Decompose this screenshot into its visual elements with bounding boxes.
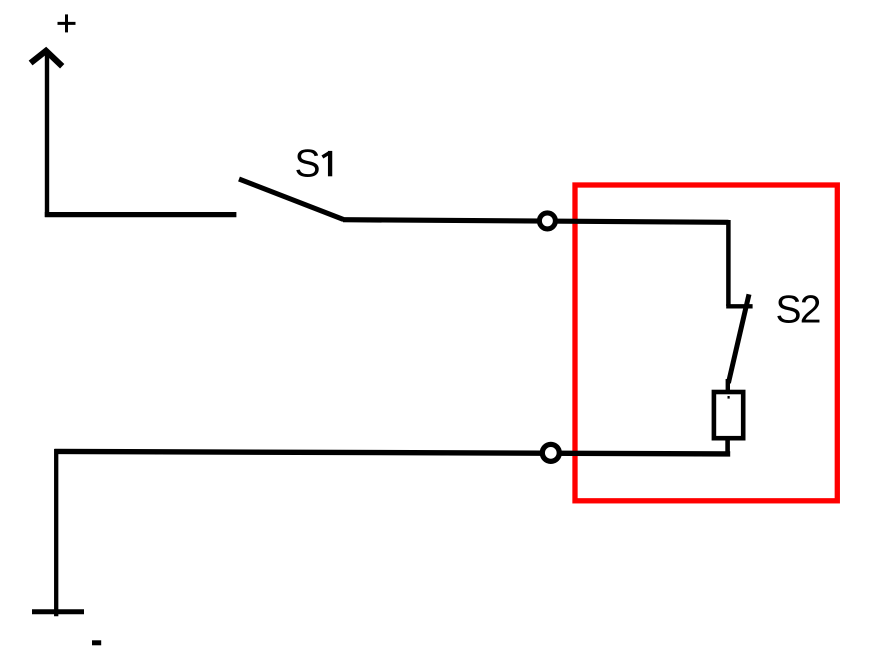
load (resistor) rectangle bbox=[714, 392, 743, 438]
bottom terminal node bbox=[542, 444, 559, 461]
wire: load bottom lead bbox=[725, 439, 730, 456]
switch S1 blade bbox=[239, 179, 344, 220]
svg-text:S: S bbox=[295, 143, 321, 186]
plus label bbox=[58, 14, 76, 32]
red boundary box bbox=[575, 185, 837, 501]
switch S2 fixed contact hook bbox=[726, 304, 752, 308]
top terminal node bbox=[539, 213, 555, 229]
wire: vertical drop to S2 fixed contact bbox=[726, 220, 731, 306]
minus label bbox=[92, 640, 101, 645]
wire: supply rail to S1 left contact bbox=[45, 212, 237, 217]
switch S2 blade bbox=[728, 294, 749, 383]
power arrow (positive supply) bbox=[31, 51, 63, 217]
svg-text:S2: S2 bbox=[776, 289, 820, 332]
bottom wire: ground rail to load bbox=[55, 451, 731, 454]
wire: bottom rail down to ground bbox=[54, 449, 58, 616]
ground symbol bbox=[32, 609, 84, 614]
label S1 bbox=[295, 143, 331, 186]
wire: S2 blade to load bbox=[726, 379, 730, 392]
wire: S1 to top terminal and into box bbox=[343, 220, 729, 223]
